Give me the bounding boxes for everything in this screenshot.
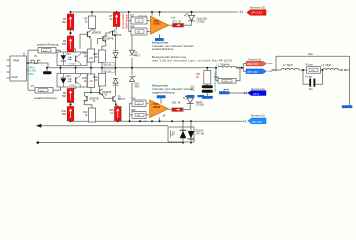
wire opamp1 minus stub to cap <box>159 34 161 38</box>
resistor R5 <box>67 14 74 30</box>
svg-text:44Z7: 44Z7 <box>135 54 141 57</box>
svg-text:+9V: +9V <box>89 80 94 83</box>
svg-text:560: 560 <box>62 43 67 46</box>
svg-text:2.2: 2.2 <box>225 81 228 83</box>
wire R7 column <box>116 11 118 14</box>
svg-text:Klemme (x2): Klemme (x2) <box>251 115 265 118</box>
node sense line D dots <box>182 142 184 144</box>
svg-text:BD567B: BD567B <box>92 31 101 34</box>
svg-text:Smart: Smart <box>12 76 19 79</box>
svg-text:17V 1W: 17V 1W <box>196 133 205 136</box>
resistor network R17 <box>131 17 147 24</box>
wire mid output rail <box>47 67 216 69</box>
resistor R7 <box>113 13 120 27</box>
svg-text:C-Last: C-Last <box>305 76 312 79</box>
svg-text:negative Richtung: negative Richtung <box>152 90 175 94</box>
svg-text:560: 560 <box>62 113 67 116</box>
svg-text:PC817: PC817 <box>70 85 77 87</box>
wire R24 branch <box>216 68 218 81</box>
wire tag pair bracket <box>240 67 244 69</box>
wire opamp1 output to R21 <box>169 24 173 26</box>
svg-text:BD677: BD677 <box>118 98 126 101</box>
wire D5 column <box>131 35 133 50</box>
wire black cap stub <box>46 68 48 72</box>
resistor R11 <box>87 49 94 62</box>
wire sense line upper <box>40 125 168 127</box>
svg-text:UB+7,8V: UB+7,8V <box>247 62 259 66</box>
probe arrow sense line upper <box>36 124 41 128</box>
op-amp IC1 body <box>10 56 27 81</box>
op-amp IC1a <box>151 16 169 34</box>
wire opamp2 stubs <box>160 98 162 103</box>
wire R23 column <box>206 68 208 71</box>
optocoupler OK2 <box>57 74 87 88</box>
resistor R9 <box>88 16 95 29</box>
transistor T5 <box>99 89 101 94</box>
node tag bracket dot <box>241 67 243 69</box>
wire R11 R13 stubs to rail <box>90 62 92 68</box>
label box BYS46 lower <box>104 69 114 73</box>
svg-text:300W Version: 300W Version <box>126 13 129 29</box>
wire T1 emitter to R11 <box>89 38 92 49</box>
svg-text:L1 50µH/4A: L1 50µH/4A <box>217 63 231 66</box>
svg-text:+Ub: +Ub <box>171 17 176 20</box>
capacitor C1v plate <box>202 85 213 88</box>
potentiometer P2 <box>35 88 53 94</box>
resistor R6 <box>67 36 74 52</box>
resistor R10 <box>67 107 74 122</box>
square wave symbol <box>31 60 41 63</box>
diode box D13/D14 <box>168 127 194 142</box>
node filter junctions <box>302 69 304 71</box>
capacitor blue near tag3 <box>219 91 230 94</box>
svg-text:Klemme (x2): Klemme (x2) <box>251 88 265 91</box>
svg-text:Uref -Uv: Uref -Uv <box>139 120 148 123</box>
wire T2 base <box>98 38 104 40</box>
svg-text:560: 560 <box>62 21 67 24</box>
LED D1 <box>185 13 195 21</box>
wire opamp2 input column <box>129 103 131 121</box>
svg-text:L2 50µH: L2 50µH <box>283 64 293 67</box>
op-amp IC1b <box>150 100 169 118</box>
svg-text:BYV26: BYV26 <box>105 64 112 66</box>
svg-text:UB-7,8V: UB-7,8V <box>247 70 258 74</box>
wire D10 column <box>131 83 133 98</box>
svg-text:UP-13V: UP-13V <box>252 120 262 124</box>
label box BYS46 upper <box>104 62 114 66</box>
svg-text:R18: R18 <box>130 25 135 28</box>
wire opamp2 output <box>168 109 171 111</box>
svg-text:positive Richtung: positive Richtung <box>152 47 174 51</box>
svg-text:R19: R19 <box>131 97 136 100</box>
tag UB-7.8V <box>246 69 267 74</box>
svg-text:Sieb: Sieb <box>308 53 313 56</box>
svg-text:nur bei 150W u.: nur bei 150W u. <box>122 12 125 29</box>
wire to P2 <box>27 63 29 90</box>
diode D7 schottky <box>113 51 118 58</box>
wire top supply rail <box>71 11 239 13</box>
wire T6 column <box>115 94 117 95</box>
svg-text:LM393: LM393 <box>153 106 161 109</box>
wire to P1 <box>27 50 29 63</box>
resistor R12 <box>88 108 95 122</box>
transistor T3 <box>112 31 114 36</box>
svg-text:LM393: LM393 <box>153 23 161 26</box>
capacitor blue C1f <box>202 96 213 99</box>
svg-text:10n: 10n <box>309 88 314 91</box>
LED D2 <box>184 96 194 104</box>
svg-text:C1v+C1n aus Elko: C1v+C1n aus Elko <box>214 71 217 92</box>
wire right edge vertical <box>349 56 351 105</box>
wire T2 emitter <box>102 42 106 50</box>
wire input box column top <box>128 12 130 32</box>
wire sense line lower <box>39 142 183 144</box>
capacitor blue end <box>342 105 353 108</box>
svg-text:OK2: OK2 <box>66 75 71 78</box>
resistor network R19 <box>132 100 146 106</box>
wire bottom mirror columns <box>90 68 92 74</box>
wire opto2 pins <box>60 68 62 74</box>
wire filter input <box>274 69 281 71</box>
node mid rail junctions <box>46 67 48 69</box>
wire L3 to connector <box>339 69 341 71</box>
wire red resistor column bottom <box>70 89 72 122</box>
wire opamp1 box outputs <box>147 20 150 22</box>
wire C-Last branch <box>303 70 309 84</box>
svg-text:BC547B: BC547B <box>104 38 113 41</box>
svg-text:R20: R20 <box>131 109 136 112</box>
svg-text:max 1,5A bei ohmsche Last, ca: max 1,5A bei ohmsche Last, ca 10mA (bei … <box>152 59 232 63</box>
wire T1 collector <box>90 29 92 31</box>
wire opto1 pins <box>60 66 62 68</box>
optocoupler OK1 <box>57 52 87 66</box>
transistor T6 <box>112 96 114 101</box>
white arrows inside red resistors <box>69 17 72 27</box>
svg-text:OK1: OK1 <box>66 53 71 56</box>
squiggle marks <box>268 63 273 64</box>
wire Sieb return <box>276 55 350 57</box>
svg-text:LTV816: LTV816 <box>197 21 206 24</box>
capacitor blue bars above opamp2 <box>157 95 166 98</box>
resistor network R18 <box>131 28 147 35</box>
svg-text:BYV26: BYV26 <box>105 71 112 73</box>
wire R9 column <box>91 12 93 16</box>
svg-text:UP+13V: UP+13V <box>251 11 264 15</box>
svg-text:PC817: PC817 <box>70 63 77 65</box>
wire bottom rail <box>71 120 243 122</box>
resistor R23 <box>204 71 211 85</box>
svg-text:R-Last: R-Last <box>306 64 313 67</box>
svg-text:560: 560 <box>62 95 67 98</box>
svg-text:Uref +Uv: Uref +Uv <box>139 15 149 18</box>
wire LED1 to rail <box>191 12 193 15</box>
diode D13 <box>182 121 184 142</box>
svg-text:positive Richtung: positive Richtung <box>37 43 59 47</box>
svg-text:UP 0: UP 0 <box>253 92 260 96</box>
probe dot sense line lower <box>37 141 40 143</box>
wire T2 collector <box>106 32 113 36</box>
connector chevrons <box>236 66 239 68</box>
capacitor blue under opamp1 <box>155 38 164 41</box>
wire IC output <box>27 62 49 64</box>
capacitor black bar <box>43 71 52 74</box>
svg-text:+9V: +9V <box>89 57 94 60</box>
diode D5 zener <box>130 50 136 56</box>
wire filter mid <box>299 69 307 71</box>
svg-text:R22 3K: R22 3K <box>172 102 181 105</box>
diode D10 zener <box>130 76 136 82</box>
potentiometer P1 <box>38 48 56 54</box>
svg-text:LTV816: LTV816 <box>196 104 205 107</box>
transistor T1 <box>86 32 88 38</box>
capacitor C1n plate <box>202 90 213 93</box>
wire T1 base <box>80 33 87 35</box>
wire L1 branch <box>236 67 240 69</box>
svg-text:44Z7: 44Z7 <box>135 85 141 88</box>
transistor T2 <box>102 36 104 41</box>
diode D14 <box>190 121 192 142</box>
transistor T4 <box>86 96 88 101</box>
wire to tag UB-0 <box>230 92 248 94</box>
svg-text:R17: R17 <box>130 14 135 17</box>
svg-text:PWM: PWM <box>27 73 33 76</box>
svg-text:R21 3K: R21 3K <box>173 20 182 23</box>
resistor R13 <box>98 50 105 63</box>
node rail A junctions <box>70 11 72 13</box>
resistor R14 <box>98 73 105 86</box>
svg-text:negative Richtung: negative Richtung <box>34 96 57 100</box>
node red column mid dots <box>69 32 71 34</box>
resistor R15 <box>87 74 94 87</box>
connector circles in <box>272 69 274 71</box>
node rail B junctions <box>70 120 72 122</box>
wire opamp1 supply stubs <box>151 12 153 16</box>
wire blue cap to tag3 <box>223 89 225 91</box>
svg-text:BD675: BD675 <box>114 34 122 37</box>
tag UB+7.8V <box>246 61 267 66</box>
wire D7 column <box>115 36 117 52</box>
svg-text:L3 50µH: L3 50µH <box>322 64 332 67</box>
resistor R8 <box>67 89 74 103</box>
IC1 pins <box>7 59 11 61</box>
svg-text:PWM: PWM <box>13 60 19 63</box>
wire T3 column <box>116 27 118 30</box>
resistor R16 <box>115 107 122 122</box>
wire D8 column <box>115 80 117 94</box>
resistor network R20 <box>132 112 146 119</box>
svg-text:1R: 1R <box>196 76 199 79</box>
wire red resistor column top <box>70 12 72 52</box>
wire opamp2 box outputs <box>146 102 149 104</box>
svg-text:Klemmen (x2): Klemmen (x2) <box>250 7 265 10</box>
diode D8 schottky <box>113 78 118 85</box>
connector circles out <box>341 69 343 71</box>
